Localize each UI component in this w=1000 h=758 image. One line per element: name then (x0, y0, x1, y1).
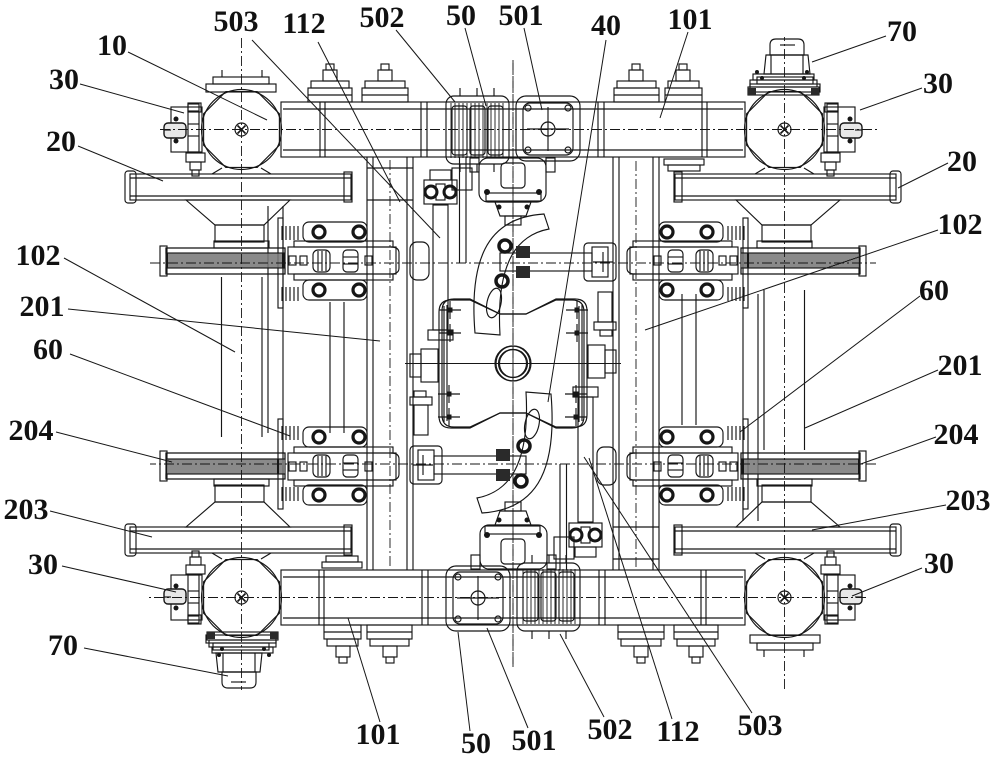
rubber spring stack 502 top (446, 96, 509, 164)
lower half assembly (180 deg rotation) (125, 37, 901, 689)
plate bolt mark 4 (438, 393, 460, 395)
spring stop stack 1 (674, 625, 718, 639)
swing lever upper (474, 214, 549, 335)
side frame left inner (652, 157, 654, 570)
cross rod bracket right (584, 243, 616, 281)
plate bolt mark 1 (439, 309, 461, 311)
axle box TR pedestal (755, 168, 814, 174)
wheel 20 TL tread (675, 527, 896, 553)
centerline axle left vertical (784, 37, 786, 689)
bolster hanger bracket (480, 525, 547, 569)
centerline centre horizontal (405, 363, 621, 365)
leader line 70 bottom-left (84, 648, 228, 676)
svg-text:203: 203 (4, 493, 49, 526)
leader line 502 bottom (560, 634, 604, 717)
centerline beam horizontal (149, 597, 866, 599)
upper half assembly (125, 38, 901, 690)
centerline centre horizontal (405, 363, 621, 365)
wear pad 501 top (516, 96, 580, 161)
wheel 20 TR hub (186, 502, 290, 527)
svg-text:501: 501 (499, 0, 544, 32)
bracket 30 TR (824, 107, 855, 152)
beam seam 8 (318, 570, 320, 625)
svg-text:503: 503 (214, 5, 259, 38)
axle box TR (747, 92, 823, 168)
centerline beam horizontal (160, 129, 877, 131)
axle box TR cover plate (206, 635, 276, 643)
leader line 60 left (70, 354, 290, 436)
leader line 204 left (56, 432, 172, 462)
leader line 30 bottom-right (852, 568, 922, 596)
leader line 204 right (858, 437, 936, 465)
hanger rod bearing (554, 537, 574, 559)
centre pivot hole (496, 346, 531, 381)
beam end plates TR (664, 159, 704, 165)
beam seam 7 (701, 102, 703, 157)
beam inner line top (283, 108, 743, 110)
svg-text:502: 502 (588, 713, 633, 746)
leader line 502 top (396, 30, 455, 102)
wheel 20 TL tread (130, 174, 351, 200)
leader line 101 bottom (348, 618, 380, 722)
leader line 70 top-right (812, 36, 886, 62)
damper upper mount right (598, 292, 612, 322)
side frame pocket left (410, 242, 429, 280)
side frame left outer (658, 157, 660, 570)
svg-text:101: 101 (668, 3, 713, 36)
bracket 30 TR (171, 575, 202, 620)
damper rod left (578, 397, 593, 522)
damper bearing left top (424, 180, 457, 204)
centre plate inner lines (443, 306, 445, 422)
axle box TL cover plate (206, 84, 276, 92)
leader line 201 left (68, 309, 380, 341)
leader line 503 bottom (584, 457, 752, 713)
beam seam 6 (421, 570, 423, 625)
rubber spring stack 502 top (517, 563, 580, 631)
leader line 201 right (805, 370, 938, 428)
top transom beam (281, 102, 745, 157)
gear 204 TL (741, 453, 860, 479)
svg-text:30: 30 (28, 548, 58, 581)
plate bolt mark 2 (439, 332, 461, 334)
gear 204 TL (166, 248, 285, 274)
centerline frame left vertical (635, 160, 637, 567)
svg-text:70: 70 (887, 15, 917, 48)
svg-text:204: 204 (934, 418, 979, 451)
leader line 203 left (50, 511, 152, 537)
beam end plates TR (322, 562, 362, 568)
beam seam 3 (604, 570, 606, 625)
leader line 501 bottom (487, 628, 528, 728)
svg-text:40: 40 (591, 9, 621, 42)
centre plate 40 (442, 299, 587, 427)
spring stop stack 2 (362, 88, 408, 102)
leader line 203 right (812, 505, 946, 530)
svg-text:201: 201 (938, 349, 983, 382)
damper rod left (433, 205, 448, 330)
side frame left outer (366, 157, 368, 570)
centre plate inner lines (581, 305, 583, 421)
beam seam 8 (706, 102, 708, 157)
centerline frame left vertical (389, 160, 391, 567)
beam inner line top (283, 617, 743, 619)
leader line 50 top (465, 28, 486, 106)
axle body left (804, 290, 806, 450)
leader line 503 top (252, 40, 440, 238)
svg-text:102: 102 (938, 208, 983, 241)
svg-text:203: 203 (946, 484, 991, 517)
top transom beam (281, 570, 745, 625)
brake rod left outer (695, 294, 697, 425)
beam seam 2 (324, 102, 326, 157)
beam seam 3 (420, 102, 422, 157)
beam seam 6 (603, 102, 605, 157)
side frame left inner (372, 157, 374, 570)
brake unit 60 TR (630, 247, 738, 274)
svg-text:10: 10 (97, 29, 127, 62)
beam seam 2 (700, 570, 702, 625)
leader line 102 left (64, 258, 235, 352)
cross rod upper (434, 456, 526, 474)
leader line 20 right (898, 163, 948, 188)
svg-text:60: 60 (33, 333, 63, 366)
axle body left (221, 277, 223, 437)
spring stop stack 4 (324, 625, 361, 639)
centerline bogie vertical (512, 60, 514, 667)
beam inner line bottom (283, 576, 743, 578)
side bearer block left (588, 345, 605, 378)
plate bolt mark 4 (566, 332, 588, 334)
leader line 30 top-right (860, 88, 922, 110)
side frame left seams (367, 167, 413, 169)
gear 204 TR (741, 248, 860, 274)
axle box TR cover plate (750, 84, 820, 92)
wheel 20 TR tread (675, 174, 896, 200)
damper bearing left top (569, 523, 602, 547)
plate bolt mark 3 (438, 416, 460, 418)
centerline gear row horizontal (150, 463, 876, 465)
svg-text:112: 112 (282, 7, 325, 40)
spring stop stack 4 (665, 88, 702, 102)
centre plate 40 (439, 300, 584, 428)
leader line 30 top-left (80, 84, 184, 113)
beam seam 7 (323, 570, 325, 625)
leader line 20 left (78, 146, 163, 181)
bolster hanger bracket (479, 158, 546, 202)
leader line 40 (548, 40, 606, 402)
axle box TL (204, 92, 280, 168)
leader line 112 bottom (589, 458, 672, 719)
svg-text:20: 20 (46, 125, 76, 158)
leader line 102 right (645, 230, 938, 330)
wheel 20 TR tread (130, 527, 351, 553)
hanger pin boss (485, 526, 540, 534)
bracket 30 TL (171, 107, 202, 152)
wheel 20 TL hub (186, 200, 290, 225)
side frame left seams (613, 558, 659, 560)
svg-text:501: 501 (512, 724, 557, 757)
axle box TR (204, 560, 280, 636)
brake rod left inner (267, 206, 269, 433)
beam seam 1 (705, 570, 707, 625)
beam seam 4 (598, 570, 600, 625)
beam seam 4 (426, 102, 428, 157)
brake rod left inner (757, 294, 759, 521)
beam seam 1 (319, 102, 321, 157)
svg-text:201: 201 (20, 290, 65, 323)
wheel 20 TR hub (736, 200, 840, 225)
centerline gear row horizontal (150, 262, 876, 264)
svg-text:204: 204 (9, 414, 54, 447)
beam inner line bottom (283, 149, 743, 151)
cone 70 TR (222, 672, 256, 688)
spring stop stack 1 (308, 88, 352, 102)
side frame pocket left (597, 447, 616, 485)
hanger rod bearing (452, 168, 472, 190)
svg-text:30: 30 (49, 63, 79, 96)
swing lever upper (477, 392, 552, 513)
svg-text:503: 503 (738, 709, 783, 742)
svg-text:30: 30 (924, 547, 954, 580)
axle box TL (747, 560, 823, 636)
leader line 60 right (740, 296, 920, 432)
svg-text:30: 30 (923, 67, 953, 100)
gear 204 TR (166, 453, 285, 479)
plate bolt mark 3 (566, 309, 588, 311)
damper upper mount right (414, 405, 428, 435)
centre pivot hole (495, 346, 530, 381)
axle box TL cover plate (750, 635, 820, 643)
brake unit 60 TR (288, 453, 396, 480)
spring stop stack 3 (367, 625, 412, 639)
axle box TL pedestal (755, 553, 814, 559)
leader line 112 top (318, 42, 400, 202)
plate bolt mark 1 (565, 416, 587, 418)
leader line 50 bottom (458, 632, 470, 731)
axle box TR pedestal (212, 553, 271, 559)
wheel 20 TL hub (736, 502, 840, 527)
cross rod upper (500, 253, 592, 271)
hanger pin boss (486, 193, 541, 201)
svg-text:50: 50 (446, 0, 476, 32)
wear pad 501 top (446, 566, 510, 631)
plate bolt mark 2 (565, 393, 587, 395)
brake rod left outer (329, 302, 331, 433)
bracket 30 TL (824, 575, 855, 620)
cross rod bracket right (410, 446, 442, 484)
axle box TL pedestal (212, 168, 271, 174)
beam seam 5 (427, 570, 429, 625)
svg-text:50: 50 (461, 727, 491, 758)
svg-text:60: 60 (919, 274, 949, 307)
centerline bogie vertical (512, 60, 514, 667)
leader line 30 bottom-left (62, 566, 176, 592)
cone 70 TR (770, 39, 804, 55)
leader line 10 (128, 52, 267, 120)
brake unit 60 TL (630, 453, 738, 480)
svg-text:102: 102 (16, 239, 61, 272)
svg-text:112: 112 (656, 715, 699, 748)
leader line 501 top (524, 28, 542, 110)
svg-text:20: 20 (947, 145, 977, 178)
svg-text:101: 101 (356, 718, 401, 751)
svg-text:70: 70 (48, 629, 78, 662)
spring stop stack 3 (614, 88, 659, 102)
svg-text:502: 502 (360, 1, 405, 34)
centerline axle left vertical (241, 38, 243, 690)
beam seam 5 (597, 102, 599, 157)
leader line 101 top (660, 32, 688, 118)
brake unit 60 TL (288, 247, 396, 274)
side bearer block left (421, 349, 438, 382)
spring stop stack 2 (618, 625, 664, 639)
